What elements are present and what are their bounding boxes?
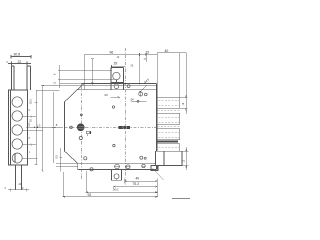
- vertical dim x36: [35, 90, 38, 165]
- leader diagonal from tab: [153, 168, 164, 180]
- centerline vertical right: [124, 48, 126, 186]
- stray line bottom right: [172, 197, 190, 199]
- left bottom dim 9.5: [59, 148, 62, 172]
- svg-text:92: 92: [88, 193, 92, 197]
- centerline arrowheads: [34, 127, 38, 128]
- svg-text:40: 40: [136, 177, 140, 181]
- centerline vertical left: [80, 86, 82, 180]
- svg-text:28.5: 28.5: [30, 99, 33, 104]
- lower hub hole: [79, 136, 82, 139]
- vertical dim x42.5: [41, 85, 44, 172]
- bolt 1: [157, 98, 179, 109]
- lower strip below faceplate: [15, 165, 17, 190]
- dim 29 tab: [112, 65, 126, 68]
- top ext verticals: [140, 53, 187, 98]
- center shaft: [119, 126, 131, 129]
- faceplate hole 2: [12, 111, 22, 121]
- svg-text:75.2: 75.2: [133, 182, 140, 186]
- centerline horizontal: [30, 126, 156, 128]
- right edge double: [155, 83, 157, 169]
- follower box below tab: [111, 83, 124, 90]
- leader x92: [91, 59, 94, 85]
- hole pair: [139, 92, 143, 96]
- small hole upper: [112, 106, 114, 108]
- small dims at strip bottom: [8, 188, 29, 191]
- svg-text:32: 32: [146, 50, 150, 54]
- main body outline: [82, 82, 156, 84]
- bottom-left chamfer: [64, 151, 77, 163]
- top tab: [110, 68, 112, 84]
- dim 13 latch right: [182, 147, 188, 170]
- left chain x59.5 dims 8 and 12: [58, 65, 61, 88]
- hidden dashes between bolts: [158, 110, 181, 112]
- diagonal leader with 45 text: [140, 85, 148, 93]
- flange ext left: [56, 162, 78, 164]
- dim 18 bolt right: [180, 92, 188, 114]
- lever detail: [86, 131, 90, 134]
- inner line y89.8: [77, 89, 156, 91]
- bottom dim 40: [125, 179, 158, 184]
- small holes above flange: [84, 157, 87, 160]
- dim 30.8 faceplate overall: [11, 55, 31, 59]
- svg-text:146.5: 146.5: [113, 189, 120, 192]
- cylinder cam dark circle: [77, 124, 84, 131]
- top-left chamfer: [64, 85, 82, 102]
- ext vertical x84.7: [84, 54, 86, 90]
- arrow at centerline top edge: [124, 84, 126, 86]
- svg-text:22: 22: [18, 60, 22, 64]
- faceplate front view: [9, 90, 28, 165]
- small dot hole on centerline: [80, 114, 82, 116]
- small hole lower: [113, 144, 115, 146]
- top dim 96 line: [85, 53, 158, 56]
- flange: [78, 162, 157, 164]
- faceplate hole 3: [12, 125, 22, 135]
- edge strip left: [11, 66, 13, 90]
- left edge: [63, 102, 65, 151]
- svg-text:30.8: 30.8: [14, 53, 21, 57]
- follower hole: [114, 84, 119, 89]
- bolt 4: [157, 144, 179, 152]
- horizontal centerline dims y127.4: [26, 126, 62, 128]
- dark bar under bolt3: [157, 141, 178, 143]
- bottom dim 92: [63, 172, 157, 197]
- dim 40 top right: [157, 52, 186, 54]
- bottom dim line 3: [86, 171, 157, 197]
- svg-text:96: 96: [110, 50, 114, 54]
- hole leaders: [22, 116, 42, 158]
- flange screw holes: [90, 168, 93, 171]
- small tab below latch box: [151, 166, 158, 171]
- bottom dim 75.2: [114, 186, 158, 189]
- svg-text:29: 29: [114, 62, 118, 66]
- dim 22: [8, 62, 31, 66]
- tab circle: [113, 72, 120, 79]
- faceplate hole 1: [12, 97, 22, 107]
- extension lines to tab: [36, 70, 114, 163]
- left hub hole: [70, 126, 73, 129]
- box below flange: [112, 169, 122, 180]
- bolt 3: [157, 129, 179, 140]
- latch box bottom right: [156, 151, 183, 165]
- svg-text:40: 40: [165, 49, 169, 53]
- faceplate hole 4: [12, 139, 22, 149]
- faceplate hole 5 latch: [12, 153, 22, 163]
- edge strip right: [26, 66, 28, 90]
- small circle right of it: [127, 85, 130, 88]
- bolt 2: [157, 113, 179, 124]
